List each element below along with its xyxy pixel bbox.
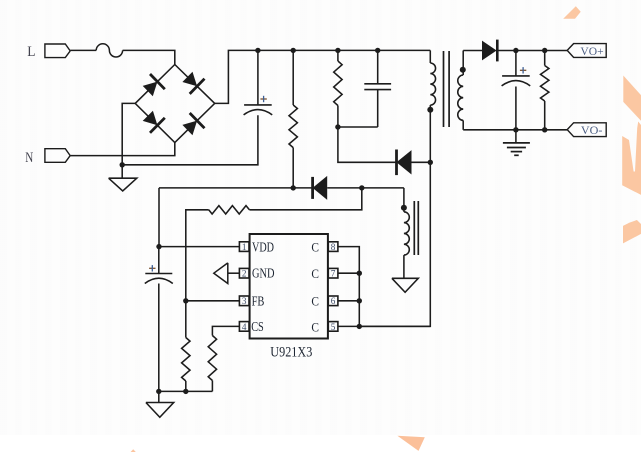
svg-text:N: N	[25, 150, 33, 166]
wire N to bridge bottom	[70, 143, 175, 156]
bridge rectifier frame	[135, 65, 215, 143]
wire primary bottom to pin5 bus	[359, 162, 430, 326]
svg-text:CS: CS	[251, 319, 264, 334]
connector VO-	[567, 123, 606, 137]
transformer T1 primary winding	[429, 50, 431, 63]
junction load resistor top	[542, 48, 547, 53]
junction bus pin7	[357, 271, 362, 276]
wire secondary bottom rail	[463, 129, 567, 131]
junction startup node	[291, 185, 296, 190]
wire pin5 to primary	[338, 325, 430, 327]
wire bridge left vertex to ground node	[122, 103, 135, 164]
resistor R6 CS	[208, 336, 216, 381]
wire secondary top	[463, 50, 482, 52]
svg-text:VO+: VO+	[580, 44, 603, 58]
wire FB resistor to FB pin	[186, 210, 209, 301]
bridge diode top-right	[182, 72, 197, 87]
ground aux	[392, 278, 418, 292]
capacitor bulk C1	[257, 50, 259, 105]
wire pin7 to bus	[338, 272, 359, 274]
bridge diode bottom-right	[182, 121, 197, 136]
junction snubber cap top	[375, 48, 380, 53]
junction FB divider	[183, 298, 188, 303]
junction bus pin6	[357, 298, 362, 303]
svg-text:VO-: VO-	[581, 123, 603, 137]
svg-text:FB: FB	[252, 293, 265, 308]
junction load resistor bottom	[542, 127, 547, 132]
junction aux node	[359, 185, 364, 190]
resistor R4 feedback	[209, 206, 250, 214]
wire snubber bottom link	[338, 126, 378, 128]
ground arrow GND pin	[214, 263, 228, 284]
diode D2 output rectifier	[482, 41, 497, 61]
transformer T1 secondary phase dot	[460, 67, 466, 73]
wire GND arrow to pin2	[228, 272, 240, 274]
svg-text:7: 7	[331, 269, 336, 279]
svg-text:1: 1	[242, 242, 247, 252]
wire clamp diode to primary	[412, 161, 431, 163]
transformer T1 secondary winding	[462, 51, 464, 76]
transformer aux phase dot	[401, 205, 407, 211]
pin 8 box	[328, 242, 338, 252]
wire aux diode to winding	[327, 187, 404, 189]
junction VDD	[156, 244, 161, 249]
svg-text:C: C	[311, 241, 319, 255]
pin 1 box	[239, 242, 249, 252]
wire pin6 to bus	[338, 300, 359, 302]
wire bridge right vertex to top rail	[215, 50, 431, 103]
transformer T1 core	[443, 51, 445, 127]
wire VDD vertical	[158, 188, 160, 247]
junction bus pin5	[357, 324, 362, 329]
resistor R2 snubber	[337, 50, 339, 61]
svg-text:6: 6	[331, 296, 336, 306]
bridge diode bottom-left	[143, 111, 158, 126]
wire snubber to clamp diode	[338, 127, 397, 162]
resistor R3 load	[544, 51, 546, 66]
diode D1 clamp	[397, 150, 412, 174]
capacitor C2 snubber	[377, 50, 379, 83]
wire L to fuse	[70, 49, 96, 51]
ground primary	[121, 165, 123, 178]
resistor R5 FB divider	[185, 301, 187, 338]
svg-text:2: 2	[242, 269, 247, 279]
fuse F1	[96, 44, 122, 57]
bridge diode top-left	[143, 82, 158, 97]
wire FB to pin3	[186, 300, 240, 302]
wire bottom ground bus	[159, 390, 213, 392]
svg-text:C: C	[311, 295, 319, 309]
svg-text:VDD: VDD	[252, 240, 274, 255]
transformer aux winding	[403, 188, 405, 212]
pin 7 box	[328, 268, 338, 278]
wire CS from pin4	[212, 326, 239, 335]
junction input resistor top	[291, 48, 296, 53]
junction bulk cap top	[255, 48, 260, 53]
svg-text:3: 3	[242, 296, 247, 306]
svg-text:L: L	[27, 44, 35, 60]
connector VO+	[567, 44, 606, 58]
wire VDD feed	[159, 187, 313, 189]
junction primary bottom / clamp	[428, 160, 433, 165]
pin 3 box	[239, 296, 249, 306]
junction output cap top	[513, 48, 518, 53]
wire VDD to pin1	[159, 246, 239, 248]
transformer T1 primary phase dot	[427, 107, 433, 113]
svg-text:GND: GND	[252, 266, 275, 281]
transformer aux core	[413, 201, 415, 255]
svg-text:C: C	[311, 320, 319, 334]
capacitor C4 VDD	[158, 247, 160, 274]
svg-text:U921X3: U921X3	[270, 344, 312, 360]
svg-text:8: 8	[331, 242, 336, 252]
pin 5 box	[328, 322, 338, 332]
wire rectifier to VO+	[497, 50, 567, 52]
wire aux node to FB resistor	[249, 188, 361, 210]
svg-text:4: 4	[242, 322, 247, 332]
wire fuse to bridge top	[123, 50, 175, 64]
ground earth secondary	[515, 130, 517, 143]
junction snubber resistor top	[335, 48, 340, 53]
junction ground bus left	[156, 389, 161, 394]
junction output cap bottom	[513, 127, 518, 132]
wire pin8 to bus	[338, 247, 359, 327]
wire ground node to bulk cap	[122, 115, 258, 165]
pin 6 box	[328, 296, 338, 306]
resistor R1 input	[292, 50, 294, 105]
diode D3 aux rectifier	[313, 176, 328, 200]
ground VDD	[158, 391, 160, 402]
pin 2 box	[239, 268, 249, 278]
op-amp U1 body U921X3	[250, 234, 328, 339]
svg-text:C: C	[311, 267, 319, 281]
pin 4 box	[239, 322, 249, 332]
capacitor C3 output	[515, 51, 517, 76]
svg-text:5: 5	[331, 322, 336, 332]
junction snubber bottom	[335, 124, 340, 129]
junction ground bus mid	[183, 389, 188, 394]
connector L	[45, 44, 70, 58]
connector N	[45, 149, 70, 163]
node primary return junction	[120, 162, 125, 167]
